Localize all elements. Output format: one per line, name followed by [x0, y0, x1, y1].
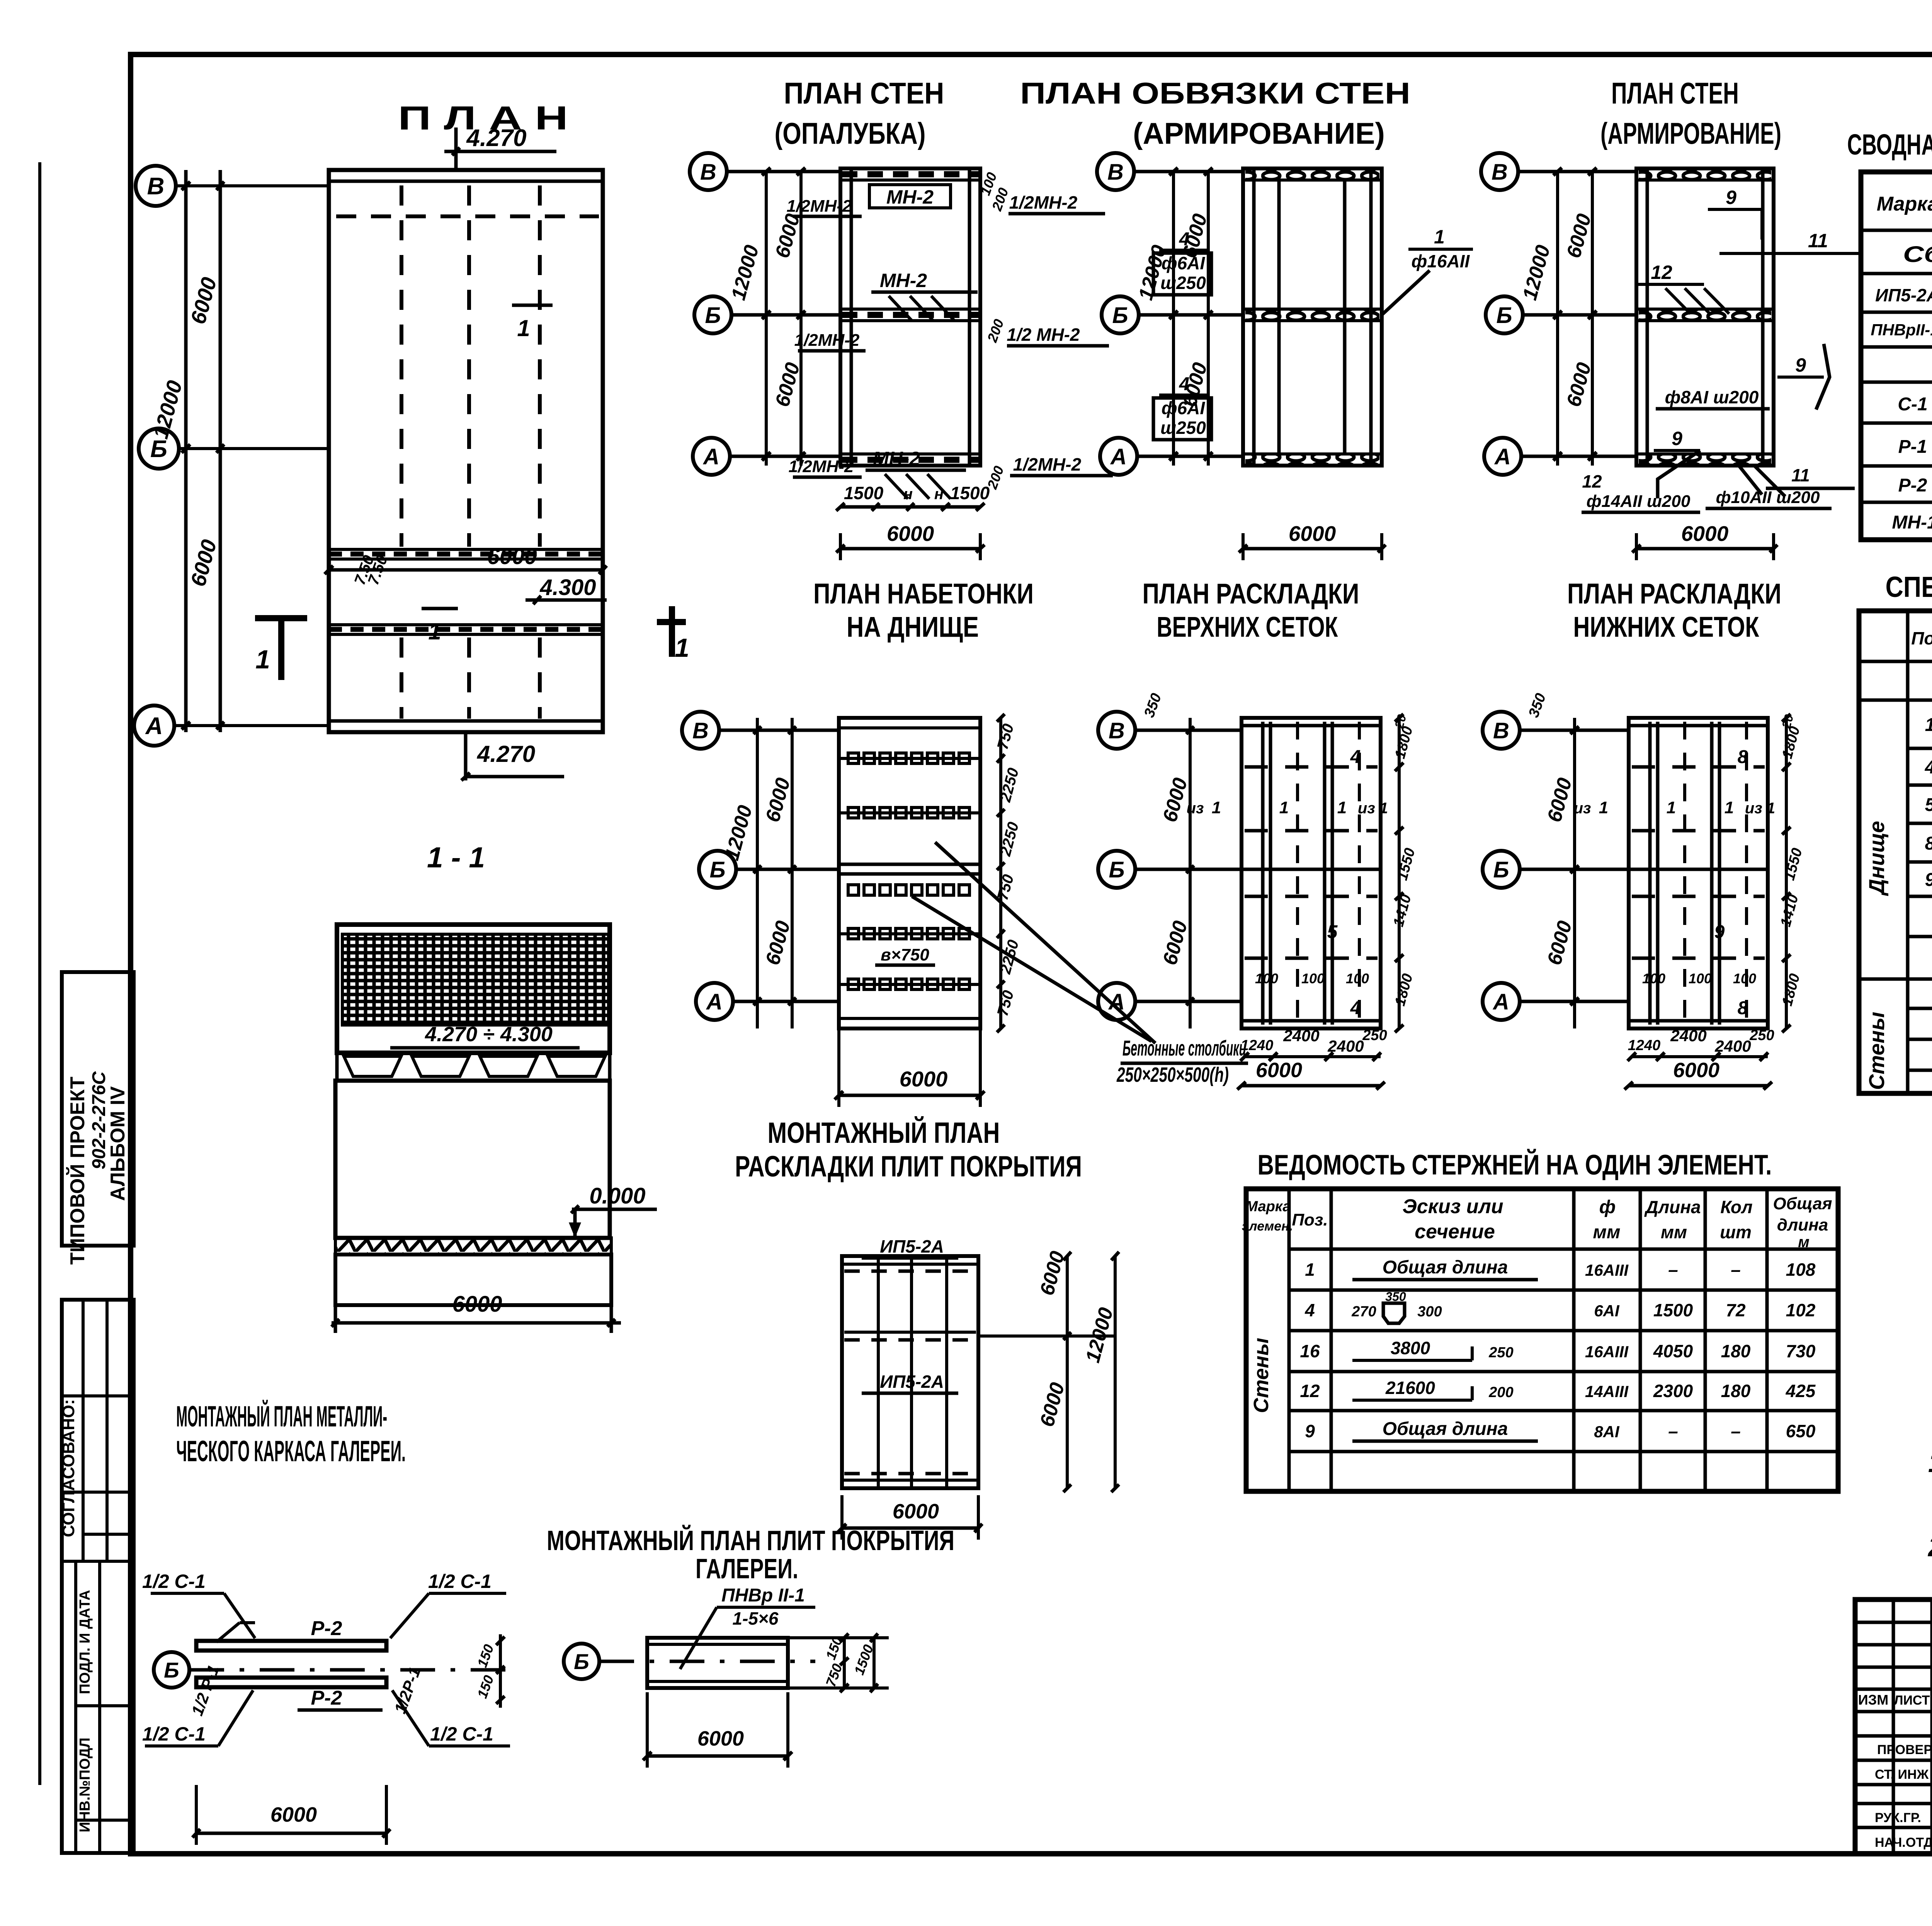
svg-text:м: м	[1798, 1234, 1810, 1251]
svg-text:9: 9	[1726, 187, 1736, 208]
svg-text:100: 100	[1642, 971, 1665, 986]
svg-text:Р-1: Р-1	[1898, 437, 1927, 457]
svg-text:2300: 2300	[1653, 1381, 1693, 1401]
svg-text:н: н	[934, 486, 944, 503]
svg-text:4: 4	[1350, 747, 1361, 767]
svg-text:1/2 С-1: 1/2 С-1	[430, 1723, 493, 1745]
svg-text:Б: Б	[164, 1658, 179, 1682]
svg-text:1: 1	[1599, 798, 1608, 817]
svg-text:сечение: сечение	[1415, 1221, 1495, 1243]
svg-text:НАЧ.ОТД.: НАЧ.ОТД.	[1875, 1835, 1932, 1850]
svg-text:14АIII: 14АIII	[1585, 1382, 1629, 1401]
svg-text:СТ. ИНЖ: СТ. ИНЖ	[1875, 1767, 1929, 1782]
svg-text:ф14АII ш200: ф14АII ш200	[1587, 492, 1690, 511]
svg-text:1: 1	[1305, 1260, 1315, 1280]
svg-text:1/2МН-2: 1/2МН-2	[787, 197, 852, 216]
svg-text:СОГЛАСОВАНО:: СОГЛАСОВАНО:	[59, 1399, 78, 1537]
svg-text:МН-2: МН-2	[873, 448, 920, 469]
svg-text:8АI: 8АI	[1594, 1423, 1620, 1441]
svg-text:Марка: Марка	[1245, 1198, 1291, 1215]
svg-text:н: н	[903, 486, 913, 503]
svg-text:Стены: Стены	[1250, 1338, 1273, 1413]
svg-text:1 - 1: 1 - 1	[427, 841, 485, 874]
svg-text:Сборные железобетонные элеме: Сборные железобетонные элементы	[1903, 242, 1932, 267]
svg-text:Поз.: Поз.	[1292, 1210, 1328, 1229]
svg-text:Эскиз или: Эскиз или	[1402, 1195, 1503, 1218]
svg-text:С-1: С-1	[1898, 394, 1927, 415]
svg-text:–: –	[1668, 1260, 1678, 1280]
svg-text:Кол: Кол	[1720, 1197, 1752, 1217]
svg-text:–: –	[1668, 1421, 1678, 1441]
svg-text:МН-2: МН-2	[886, 186, 934, 208]
svg-text:6000: 6000	[487, 544, 537, 569]
svg-text:В: В	[1493, 718, 1509, 743]
svg-text:НА ДНИЩЕ: НА ДНИЩЕ	[847, 611, 979, 643]
svg-text:ИНВ.№ПОДЛ: ИНВ.№ПОДЛ	[77, 1737, 93, 1832]
svg-text:ф16АII: ф16АII	[1412, 251, 1470, 271]
svg-text:6АI: 6АI	[1594, 1302, 1620, 1320]
svg-text:–: –	[1731, 1260, 1741, 1280]
svg-text:4.270: 4.270	[477, 741, 535, 767]
svg-text:Р-2: Р-2	[1898, 475, 1927, 496]
svg-text:180: 180	[1721, 1341, 1751, 1361]
svg-text:ПЛАН НАБЕТОНКИ: ПЛАН НАБЕТОНКИ	[813, 578, 1034, 610]
svg-text:2400: 2400	[1670, 1027, 1706, 1045]
svg-text:100: 100	[1733, 971, 1756, 986]
svg-text:из 1: из 1	[1745, 800, 1775, 817]
svg-text:РУК.ГР.: РУК.ГР.	[1875, 1810, 1921, 1825]
svg-text:В: В	[1492, 160, 1508, 185]
svg-text:4.300: 4.300	[539, 575, 596, 600]
svg-text:ПОДЛ. И ДАТА: ПОДЛ. И ДАТА	[77, 1590, 93, 1694]
svg-text:шт: шт	[1720, 1222, 1752, 1242]
svg-text:Б: Б	[705, 303, 721, 328]
svg-text:Бетонные столбики: Бетонные столбики	[1122, 1036, 1246, 1060]
svg-text:8: 8	[1925, 833, 1932, 854]
svg-text:9: 9	[1925, 870, 1932, 890]
svg-text:ш250: ш250	[1160, 273, 1206, 293]
svg-text:200: 200	[1488, 1384, 1513, 1401]
svg-text:1: 1	[1925, 715, 1932, 735]
svg-text:МОНТАЖНЫЙ ПЛАН: МОНТАЖНЫЙ ПЛАН	[768, 1116, 1000, 1149]
svg-text:1/2МН-2: 1/2МН-2	[1013, 454, 1082, 474]
svg-text:ВЕДОМОСТЬ СТЕРЖНЕЙ НА ОДИН: ВЕДОМОСТЬ СТЕРЖНЕЙ НА ОДИН ЭЛЕМЕНТ.	[1258, 1149, 1772, 1181]
svg-text:12: 12	[1300, 1381, 1320, 1401]
svg-text:АЛЬБОМ IV: АЛЬБОМ IV	[107, 1086, 129, 1201]
svg-text:4.270: 4.270	[466, 125, 526, 151]
svg-text:1/2МН-2: 1/2МН-2	[794, 331, 860, 350]
svg-text:Днище: Днище	[1864, 821, 1889, 896]
svg-text:ИП5-2А: ИП5-2А	[880, 1236, 944, 1256]
svg-text:МН-2: МН-2	[880, 270, 927, 291]
svg-text:6000: 6000	[697, 1727, 744, 1750]
svg-text:4: 4	[1350, 998, 1361, 1018]
svg-text:ф8АI ш200: ф8АI ш200	[1665, 387, 1759, 407]
svg-text:В: В	[1109, 718, 1125, 743]
svg-text:Общая длина: Общая длина	[1383, 1257, 1508, 1278]
svg-text:ПНВрII-1: ПНВрII-1	[1871, 321, 1932, 339]
svg-text:А: А	[706, 989, 723, 1015]
svg-text:9: 9	[1714, 922, 1725, 942]
svg-text:ТИПОВОЙ ПРОЕКТ: ТИПОВОЙ ПРОЕКТ	[66, 1076, 89, 1265]
svg-text:ф10АII ш200: ф10АII ш200	[1716, 488, 1820, 507]
svg-text:250: 250	[1362, 1027, 1387, 1044]
svg-text:Стены: Стены	[1864, 1012, 1889, 1090]
svg-text:8: 8	[1738, 998, 1748, 1018]
svg-text:ПРОВЕР.: ПРОВЕР.	[1877, 1742, 1932, 1757]
svg-text:из: из	[1574, 800, 1591, 817]
svg-text:270: 270	[1351, 1304, 1376, 1320]
svg-text:100: 100	[1301, 971, 1325, 986]
svg-text:Общая: Общая	[1773, 1194, 1832, 1213]
svg-text:72: 72	[1726, 1300, 1746, 1320]
svg-text:1500: 1500	[1653, 1300, 1693, 1320]
svg-text:0.000: 0.000	[589, 1183, 645, 1209]
svg-text:В: В	[700, 160, 716, 185]
svg-text:элемен.: элемен.	[1242, 1219, 1293, 1234]
svg-text:А: А	[702, 444, 719, 469]
svg-text:4: 4	[1179, 229, 1190, 250]
svg-text:6000: 6000	[1681, 522, 1729, 546]
svg-text:2. Данный чертеж см. совме: 2. Данный чертеж см. совместно с черте-	[1927, 1532, 1932, 1562]
svg-text:6000: 6000	[887, 522, 934, 546]
svg-text:(АРМИРОВАНИЕ): (АРМИРОВАНИЕ)	[1133, 116, 1385, 150]
svg-text:2400: 2400	[1283, 1027, 1319, 1045]
svg-text:1: 1	[1434, 226, 1445, 248]
svg-text:108: 108	[1786, 1260, 1816, 1280]
svg-text:Б: Б	[1112, 303, 1128, 328]
svg-text:11: 11	[1808, 230, 1828, 252]
svg-text:1/2 МН-2: 1/2 МН-2	[1007, 325, 1080, 345]
svg-text:ф6АI: ф6АI	[1162, 398, 1206, 418]
svg-text:16: 16	[1300, 1341, 1320, 1361]
svg-text:3800: 3800	[1391, 1338, 1430, 1358]
svg-text:Марка: Марка	[1877, 193, 1932, 215]
svg-text:В: В	[147, 173, 165, 200]
svg-text:Б: Б	[574, 1649, 589, 1674]
svg-text:Р-2: Р-2	[311, 1687, 342, 1709]
svg-text:650: 650	[1786, 1421, 1816, 1441]
svg-text:730: 730	[1786, 1341, 1816, 1361]
svg-text:ф6АI: ф6АI	[1162, 253, 1206, 273]
svg-text:4: 4	[1179, 374, 1190, 394]
svg-text:ПЛАН ОБВЯЗКИ СТЕН: ПЛАН ОБВЯЗКИ СТЕН	[1020, 76, 1410, 110]
svg-text:1: 1	[1279, 798, 1289, 817]
svg-text:1240: 1240	[1241, 1037, 1274, 1054]
svg-text:В: В	[692, 718, 709, 743]
svg-text:мм: мм	[1661, 1222, 1687, 1242]
svg-text:16АIII: 16АIII	[1585, 1261, 1629, 1279]
svg-text:ИП5-2А: ИП5-2А	[1875, 285, 1932, 305]
svg-text:9: 9	[1795, 354, 1806, 376]
svg-text:1: 1	[1337, 798, 1347, 817]
svg-text:ПНВр II-1: ПНВр II-1	[721, 1585, 805, 1606]
svg-text:А: А	[1108, 989, 1125, 1015]
svg-text:ПЛАН РАСКЛАДКИ: ПЛАН РАСКЛАДКИ	[1567, 578, 1781, 610]
svg-text:Б: Б	[709, 857, 725, 882]
svg-text:из: из	[1187, 800, 1204, 817]
svg-text:ПЛАН СТЕН: ПЛАН СТЕН	[1611, 76, 1739, 110]
svg-text:ф: ф	[1599, 1197, 1616, 1217]
svg-text:16АIII: 16АIII	[1585, 1343, 1629, 1361]
svg-text:6000: 6000	[1673, 1059, 1719, 1082]
svg-text:МОНТАЖНЫЙ ПЛАН МЕТАЛЛИ-: МОНТАЖНЫЙ ПЛАН МЕТАЛЛИ-	[176, 1400, 387, 1433]
svg-text:Общая длина: Общая длина	[1383, 1419, 1508, 1439]
svg-text:ЧЕСКОГО КАРКАСА ГАЛЕРЕИ.: ЧЕСКОГО КАРКАСА ГАЛЕРЕИ.	[176, 1435, 406, 1468]
svg-text:ш250: ш250	[1160, 418, 1206, 438]
svg-text:1500: 1500	[950, 483, 990, 503]
svg-text:6000: 6000	[270, 1803, 317, 1826]
svg-text:РАСКЛАДКИ ПЛИТ ПОКРЫТИЯ: РАСКЛАДКИ ПЛИТ ПОКРЫТИЯ	[735, 1150, 1082, 1183]
svg-text:В: В	[1107, 160, 1124, 185]
svg-text:4.270 ÷ 4.300: 4.270 ÷ 4.300	[425, 1023, 553, 1046]
svg-text:длина: длина	[1777, 1215, 1828, 1234]
svg-text:ГАЛЕРЕИ.: ГАЛЕРЕИ.	[696, 1554, 798, 1584]
svg-text:9: 9	[1305, 1421, 1315, 1441]
svg-text:Р-2: Р-2	[311, 1617, 342, 1640]
svg-text:250: 250	[1749, 1027, 1774, 1044]
svg-text:1/2МН-2: 1/2МН-2	[789, 457, 854, 476]
svg-text:5: 5	[1327, 922, 1338, 942]
svg-text:Б: Б	[1496, 303, 1512, 328]
svg-text:1240: 1240	[1628, 1037, 1661, 1054]
svg-text:6000: 6000	[452, 1292, 502, 1317]
svg-text:1/2 С-1: 1/2 С-1	[142, 1571, 206, 1592]
svg-text:1/2 С-1: 1/2 С-1	[428, 1571, 492, 1592]
svg-text:5: 5	[1925, 795, 1932, 815]
svg-text:А: А	[1492, 989, 1509, 1015]
svg-text:ИЗМ: ИЗМ	[1858, 1692, 1888, 1708]
svg-text:Б: Б	[150, 436, 167, 462]
svg-text:102: 102	[1786, 1300, 1816, 1320]
svg-text:(ОПАЛУБКА): (ОПАЛУБКА)	[775, 116, 926, 150]
svg-text:1. Указания о привязке вста: 1. Указания о привязке вставок см. в	[1928, 1447, 1932, 1478]
svg-text:300: 300	[1417, 1304, 1442, 1320]
svg-text:6000: 6000	[1289, 522, 1336, 546]
svg-text:А: А	[145, 713, 163, 739]
svg-text:250: 250	[1488, 1345, 1513, 1361]
svg-text:Длина: Длина	[1644, 1197, 1701, 1217]
svg-text:мм: мм	[1593, 1222, 1620, 1243]
svg-text:250×250×500(h): 250×250×500(h)	[1116, 1063, 1229, 1086]
svg-text:(АРМИРОВАНИЕ): (АРМИРОВАНИЕ)	[1600, 116, 1781, 150]
svg-text:4: 4	[1925, 757, 1932, 778]
svg-text:МН-1: МН-1	[1892, 512, 1932, 533]
svg-text:Поз.: Поз.	[1911, 628, 1932, 648]
svg-text:12: 12	[1651, 262, 1672, 283]
svg-text:8: 8	[1738, 747, 1748, 767]
svg-text:в×750: в×750	[881, 945, 929, 964]
svg-text:4050: 4050	[1653, 1341, 1693, 1361]
svg-text:6000: 6000	[1256, 1059, 1302, 1082]
svg-text:–: –	[1731, 1421, 1741, 1441]
svg-text:А: А	[1494, 444, 1511, 469]
svg-text:ПЛАН РАСКЛАДКИ: ПЛАН РАСКЛАДКИ	[1143, 578, 1359, 610]
svg-text:из 1: из 1	[1358, 800, 1388, 817]
svg-text:ИП5-2А: ИП5-2А	[880, 1372, 944, 1392]
svg-text:4: 4	[1304, 1300, 1315, 1320]
svg-text:ПЛАН СТЕН: ПЛАН СТЕН	[784, 76, 944, 110]
svg-text:Б: Б	[1493, 857, 1509, 882]
svg-text:6000: 6000	[893, 1500, 939, 1523]
svg-text:1: 1	[428, 619, 441, 644]
svg-text:1: 1	[675, 633, 689, 663]
svg-text:СВОДНАЯ СПЕЦИФИКАЦИЯ ЖЕЛЕЗОБ: СВОДНАЯ СПЕЦИФИКАЦИЯ ЖЕЛЕЗОБЕТОННЫХ И СТ…	[1847, 128, 1932, 161]
svg-text:100: 100	[1689, 971, 1712, 986]
svg-text:ВЕРХНИХ СЕТОК: ВЕРХНИХ СЕТОК	[1157, 611, 1338, 643]
svg-text:НИЖНИХ СЕТОК: НИЖНИХ СЕТОК	[1573, 611, 1760, 643]
svg-text:350: 350	[1385, 1290, 1406, 1304]
svg-text:Б: Б	[1109, 857, 1124, 882]
svg-text:1: 1	[255, 645, 270, 674]
svg-text:100: 100	[1346, 971, 1369, 986]
svg-text:425: 425	[1786, 1381, 1816, 1401]
svg-text:100: 100	[1255, 971, 1278, 986]
svg-text:1-5×6: 1-5×6	[733, 1608, 779, 1629]
svg-text:1: 1	[1667, 798, 1676, 817]
svg-text:21600: 21600	[1385, 1378, 1435, 1398]
svg-text:9: 9	[1672, 428, 1682, 449]
svg-text:1: 1	[1725, 798, 1734, 817]
svg-text:180: 180	[1721, 1381, 1751, 1401]
svg-text:11: 11	[1791, 465, 1810, 485]
svg-text:1500: 1500	[844, 483, 884, 503]
svg-text:1/2МН-2: 1/2МН-2	[1009, 192, 1078, 212]
svg-text:ЛИСТ: ЛИСТ	[1894, 1693, 1930, 1708]
svg-text:1: 1	[1212, 798, 1221, 817]
svg-text:МОНТАЖНЫЙ ПЛАН ПЛИТ ПОКРЫТИ: МОНТАЖНЫЙ ПЛАН ПЛИТ ПОКРЫТИЯ	[547, 1525, 954, 1556]
svg-text:1/2 С-1: 1/2 С-1	[142, 1723, 206, 1745]
svg-text:А: А	[1110, 444, 1127, 469]
svg-text:СПЕЦИФИКАЦИЯ МАРОК АРМАТУРНЫ: СПЕЦИФИКАЦИЯ МАРОК АРМАТУРНЫХ ИЗДЕЛИЙ.	[1886, 571, 1932, 603]
svg-text:12: 12	[1582, 471, 1602, 491]
svg-text:6000: 6000	[900, 1067, 948, 1091]
svg-text:1: 1	[517, 315, 530, 341]
